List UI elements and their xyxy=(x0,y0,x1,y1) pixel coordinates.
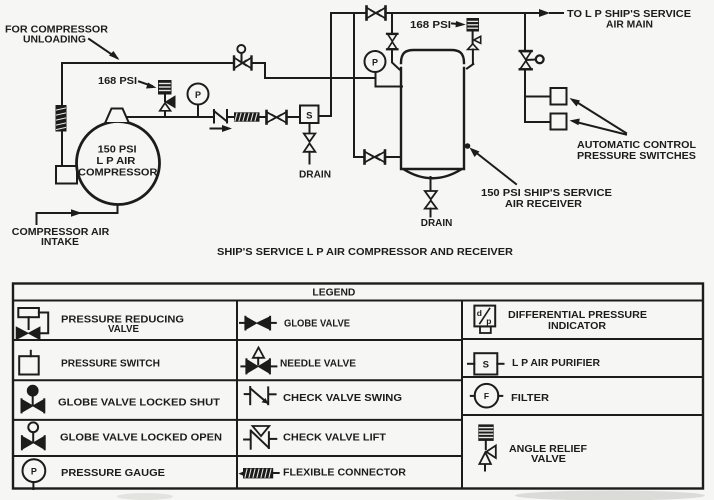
pipe: riser x392 from header xyxy=(391,13,393,34)
pipe: below valve V6 to switch tees xyxy=(524,70,526,122)
svg-text:DRAIN: DRAIN xyxy=(421,217,453,229)
svg-text:150 PSI: 150 PSI xyxy=(98,145,137,156)
legend filter symbol xyxy=(471,384,503,408)
scan smudge bottom right xyxy=(515,491,705,500)
svg-text:CHECK VALVE LIFT: CHECK VALVE LIFT xyxy=(283,432,386,443)
flow arrow below check valve xyxy=(211,125,233,132)
svg-text:INTAKE: INTAKE xyxy=(41,236,79,248)
legend rows columns 1-2 xyxy=(13,340,462,456)
svg-text:P: P xyxy=(195,90,201,100)
pipe: riser x392 to receiver dome xyxy=(392,49,400,69)
pressure switch PS1 box xyxy=(551,88,567,105)
legend needle valve symbol xyxy=(241,348,276,374)
arrow to LP ships service air main xyxy=(539,9,550,17)
arrow from 168 PSI label to RV2 xyxy=(452,21,466,27)
pipe: right branch down from header x525 xyxy=(524,13,526,50)
svg-text:FILTER: FILTER xyxy=(511,393,550,404)
pipe: gauge tee to receiver shell xyxy=(376,86,403,88)
pressure gauge PG2 xyxy=(365,51,386,87)
globe valve V5 vertical on riser xyxy=(387,34,398,50)
angle relief valve RV1 body xyxy=(160,95,175,118)
svg-text:PRESSURE SWITCHES: PRESSURE SWITCHES xyxy=(577,150,696,162)
compressor top bump xyxy=(106,109,129,123)
svg-text:GLOBE VALVE LOCKED OPEN: GLOBE VALVE LOCKED OPEN xyxy=(60,432,222,443)
globe valve V3 on top header xyxy=(367,7,386,20)
globe valve V4 receiver inlet xyxy=(365,151,386,164)
pressure switch PS2 box xyxy=(551,114,567,130)
svg-text:LEGEND: LEGEND xyxy=(312,287,355,299)
legend globe valve symbol xyxy=(240,317,276,330)
legend header divider xyxy=(13,300,703,302)
svg-text:P: P xyxy=(372,58,378,68)
legend pressure gauge symbol xyxy=(23,459,46,489)
compressor C1 circle xyxy=(77,122,160,205)
svg-text:FLEXIBLE CONNECTOR: FLEXIBLE CONNECTOR xyxy=(283,467,407,478)
legend column divider 1 xyxy=(236,301,238,489)
arrow from FOR COMPRESSOR UNLOADING label xyxy=(89,39,120,60)
scan smudge bottom left xyxy=(117,493,173,500)
svg-text:VALVE: VALVE xyxy=(108,324,139,335)
svg-text:F: F xyxy=(484,391,489,401)
pipe: valve V4 to receiver xyxy=(386,156,402,158)
drain valve DV2 below receiver xyxy=(425,177,437,217)
legend differential pressure indicator symbol xyxy=(474,306,495,333)
LP air purifier S1 box xyxy=(300,106,319,124)
svg-text:PRESSURE GAUGE: PRESSURE GAUGE xyxy=(61,468,165,479)
pipe: unloading line top-left horizontal xyxy=(62,62,233,64)
pipe: tee to switch box 1 xyxy=(525,96,551,98)
pipe: top header line y13 xyxy=(331,12,365,14)
svg-text:CHECK VALVE SWING: CHECK VALVE SWING xyxy=(283,393,402,404)
check valve swing CV1 on main line xyxy=(214,110,227,123)
svg-text:VALVE: VALVE xyxy=(531,454,566,465)
svg-text:P: P xyxy=(31,467,37,477)
svg-text:168 PSI: 168 PSI xyxy=(410,19,451,31)
svg-text:COMPRESSOR: COMPRESSOR xyxy=(78,168,158,179)
pressure gauge PG1 xyxy=(188,84,209,118)
relief valve RV2 body xyxy=(468,32,481,65)
legend column divider 2 xyxy=(461,301,463,489)
svg-text:DIFFERENTIAL PRESSURE: DIFFERENTIAL PRESSURE xyxy=(508,310,647,321)
angle relief valve RV1 spring box xyxy=(158,80,172,95)
pipe: left vertical from unloading line to compressor xyxy=(61,63,63,105)
svg-text:PRESSURE SWITCH: PRESSURE SWITCH xyxy=(61,358,160,369)
flexible connector F1 (vertical) xyxy=(56,105,67,132)
pipe: short stub after arrow xyxy=(550,12,563,14)
svg-text:GLOBE VALVE: GLOBE VALVE xyxy=(284,318,350,329)
svg-text:NEEDLE VALVE: NEEDLE VALVE xyxy=(280,358,356,369)
globe valve V6 vertical with handle xyxy=(520,51,544,69)
pipe: tee to switch box 2 xyxy=(525,121,551,123)
legend outer border xyxy=(13,284,703,489)
legend globe valve locked open symbol xyxy=(22,422,45,449)
legend globe valve locked shut symbol xyxy=(22,386,45,413)
pipe: unloading line right of valve V1 with drop to y78 xyxy=(252,63,375,78)
svg-text:AIR RECEIVER: AIR RECEIVER xyxy=(505,198,582,210)
svg-text:AIR MAIN: AIR MAIN xyxy=(606,18,653,30)
pipe: compressor discharge main line y117 xyxy=(127,116,214,118)
legend pressure switch symbol xyxy=(19,351,39,375)
legend LP air purifier symbol xyxy=(468,353,504,374)
svg-text:L P AIR PURIFIER: L P AIR PURIFIER xyxy=(512,358,601,369)
compressor inlet box xyxy=(56,166,77,184)
pipe: between check valve and flex connector xyxy=(227,116,234,118)
relief valve RV2 spring box with 168 PSI xyxy=(467,18,480,32)
svg-text:S: S xyxy=(483,360,489,371)
svg-text:168 PSI: 168 PSI xyxy=(98,75,137,87)
legend pressure reducing valve symbol xyxy=(17,308,49,339)
pipe: purifier outlet to riser xyxy=(319,13,332,116)
legend rows column 3 xyxy=(462,339,703,415)
drain valve DV1 below purifier xyxy=(304,123,316,164)
pipe: between flex connector and globe valve xyxy=(260,116,267,118)
arrow from 168 PSI label to RV1 xyxy=(139,82,157,89)
svg-text:SHIP'S SERVICE L P AIR COMPRES: SHIP'S SERVICE L P AIR COMPRESSOR AND RE… xyxy=(217,246,513,258)
svg-text:INDICATOR: INDICATOR xyxy=(548,321,607,332)
legend check valve lift symbol xyxy=(244,426,276,449)
arrow from switches label to PS1 xyxy=(570,98,627,133)
svg-text:d: d xyxy=(477,308,482,318)
legend flexible connector symbol xyxy=(238,468,278,478)
svg-text:GLOBE VALVE LOCKED SHUT: GLOBE VALVE LOCKED SHUT xyxy=(58,397,220,408)
pipe: vertical below flexible connector xyxy=(61,132,63,167)
globe valve V2 on main line xyxy=(267,111,287,124)
pipe: riser x354 from header to receiver inlet xyxy=(354,13,364,157)
pipe: RV2 to receiver dome xyxy=(467,64,473,69)
flexible connector F2 (horizontal) xyxy=(234,112,260,121)
pipe: top header continued to air main arrow xyxy=(387,12,541,14)
pipe: compressor air intake line xyxy=(37,205,118,225)
arrow from receiver label to tank xyxy=(465,143,516,184)
legend check valve swing symbol xyxy=(245,387,276,404)
pipe: globe valve to purifier S xyxy=(288,116,301,118)
svg-text:UNLOADING: UNLOADING xyxy=(23,34,86,46)
svg-text:L P AIR: L P AIR xyxy=(96,156,136,167)
svg-text:p: p xyxy=(486,316,491,326)
legend angle relief valve symbol xyxy=(478,424,496,470)
globe valve locked open V1 on unloading line xyxy=(234,45,252,70)
receiver tank T1 xyxy=(401,50,464,178)
svg-text:S: S xyxy=(306,110,312,121)
arrow from switches label to PS2 xyxy=(570,119,627,135)
svg-text:DRAIN: DRAIN xyxy=(299,169,331,181)
